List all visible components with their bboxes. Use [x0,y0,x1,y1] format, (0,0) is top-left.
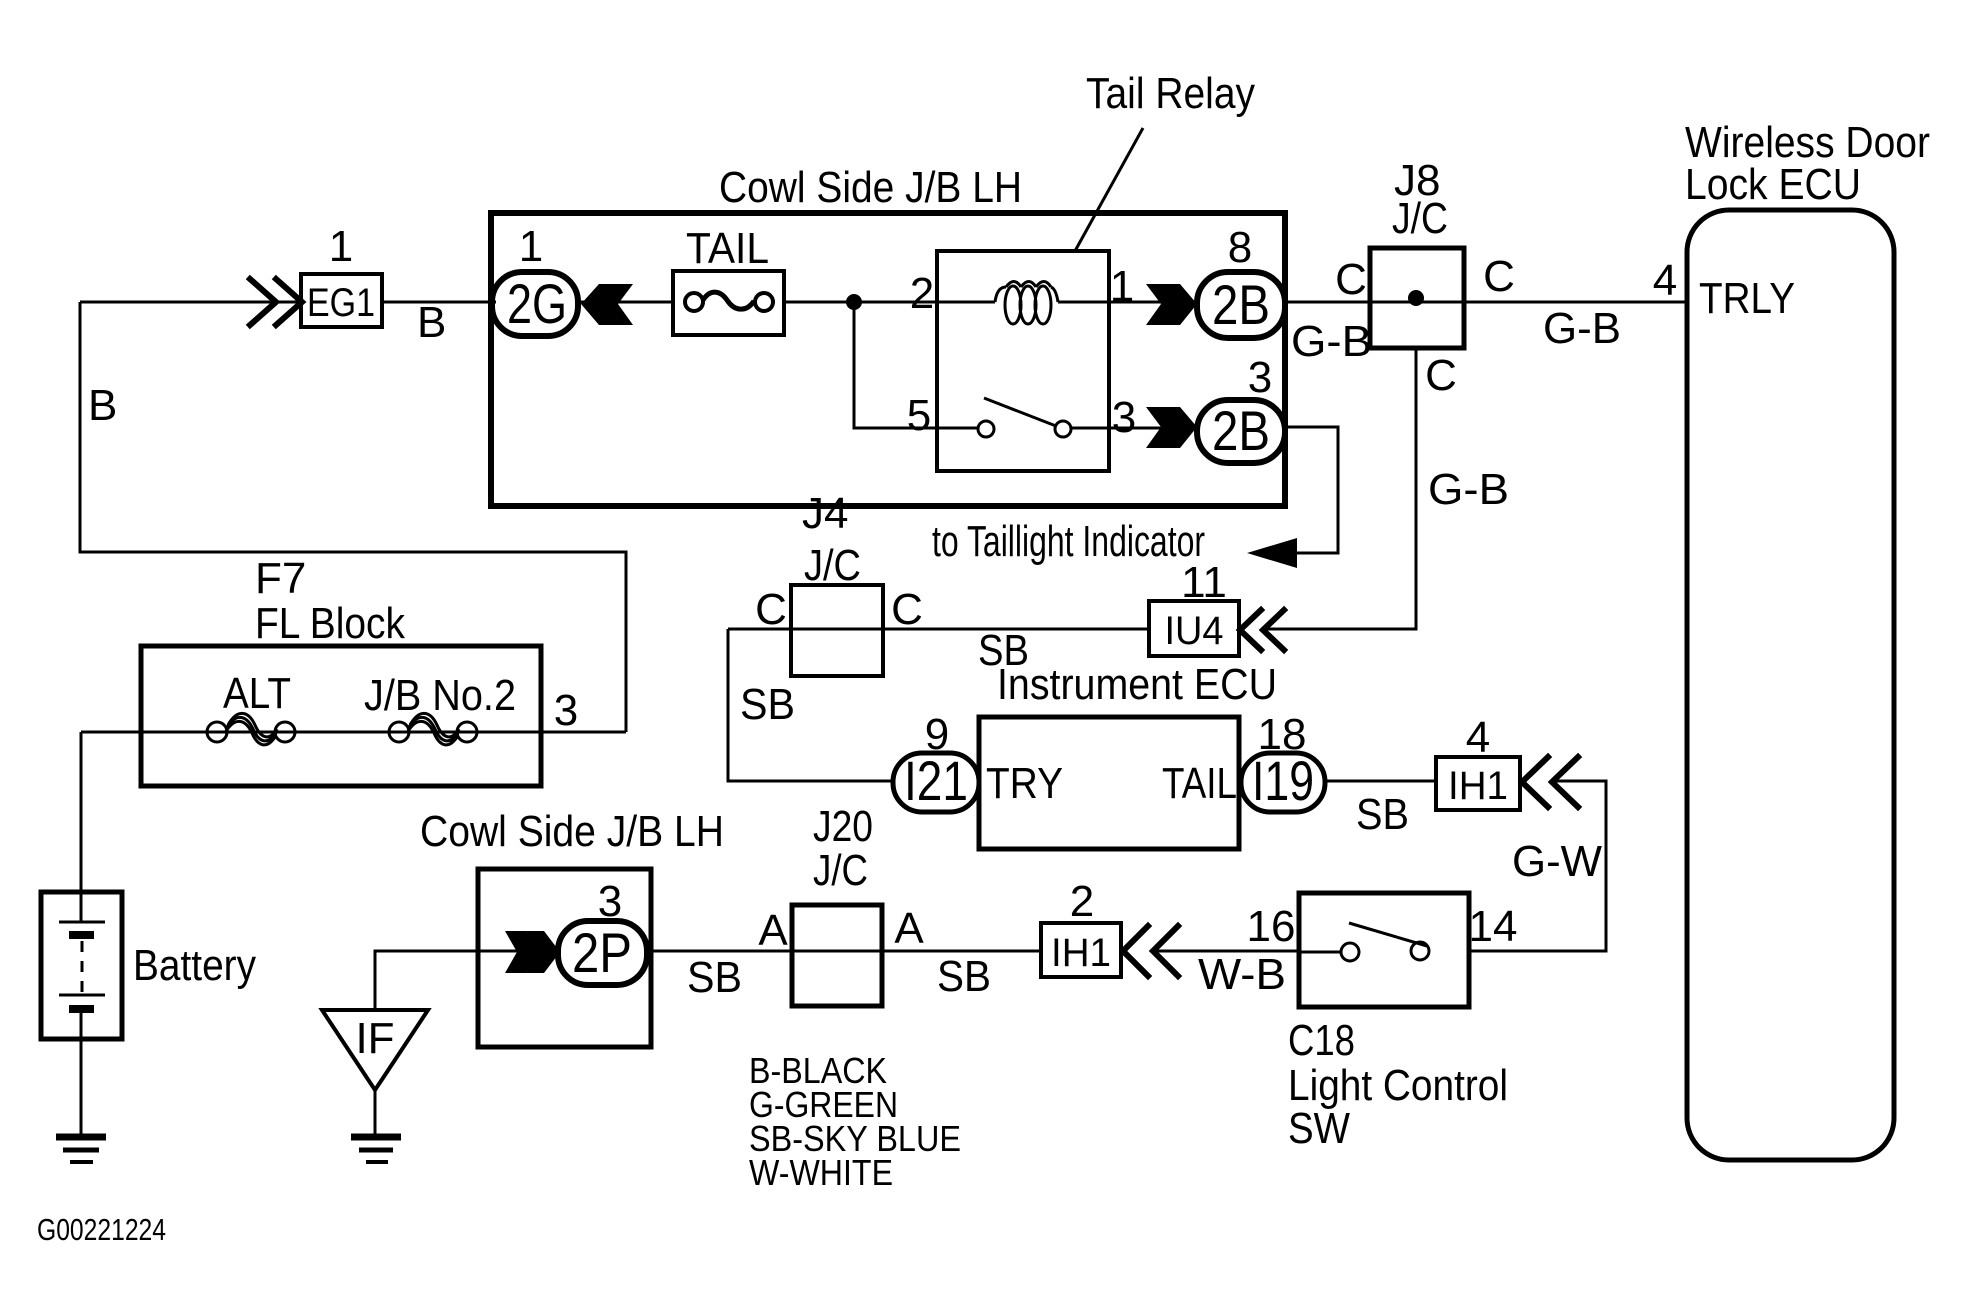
svg-text:J/B No.2: J/B No.2 [364,671,516,720]
wire junction drop to relay switch [854,302,978,428]
svg-text:IF: IF [355,1014,394,1063]
svg-text:Cowl Side J/B LH: Cowl Side J/B LH [420,807,724,856]
wire fuse row [81,731,626,734]
svg-text:F7: F7 [255,554,306,603]
connector I21 oval [893,749,979,812]
svg-text:B: B [88,381,117,430]
svg-text:IU4: IU4 [1165,609,1224,653]
svg-text:3: 3 [1112,393,1136,442]
svg-text:18: 18 [1258,710,1307,759]
svg-text:G-B: G-B [1291,317,1372,366]
battery [41,892,122,1039]
svg-text:Instrument ECU: Instrument ECU [997,660,1277,709]
svg-text:J4: J4 [802,489,848,538]
svg-text:9: 9 [925,710,949,759]
arrow to taillight indicator [1247,538,1297,568]
wire 2B upper to J8 [1285,301,1370,304]
junction connector J4 label [802,489,861,590]
svg-text:4: 4 [1466,713,1490,762]
svg-text:SB: SB [937,952,991,1001]
svg-text:5: 5 [907,391,931,440]
svg-text:J/C: J/C [813,846,868,895]
svg-text:IH1: IH1 [1448,764,1508,808]
ground symbol (battery) [56,1137,106,1162]
svg-text:A: A [894,904,924,953]
junction block Cowl Side J/B LH lower box [478,869,651,1047]
svg-text:C: C [1335,255,1367,304]
connector chevrons at IH1 upper [1522,757,1578,807]
svg-text:3: 3 [1248,353,1272,402]
connector chevrons at IH1 lower [1123,926,1178,976]
wire IH1 lower to 2P (SB) [647,950,1041,953]
wire J8 to ECU [1464,301,1687,304]
svg-text:to Taillight Indicator: to Taillight Indicator [932,517,1205,566]
legend wire colors [749,1050,961,1193]
svg-text:IH1: IH1 [1051,931,1111,975]
svg-text:TRY: TRY [986,759,1063,808]
wire IF to 2P [375,951,558,1012]
svg-text:2B: 2B [1212,273,1270,336]
fusible link J/B No.2 [389,713,477,745]
connector chevrons at IU4 [1240,610,1284,650]
svg-text:2: 2 [1070,877,1094,926]
ECU Instrument box [979,717,1239,849]
svg-text:Lock ECU: Lock ECU [1685,160,1861,209]
svg-text:C: C [891,585,923,634]
svg-text:SW: SW [1288,1104,1350,1153]
svg-text:B: B [417,298,446,347]
svg-text:FL Block: FL Block [255,599,406,648]
junction connector J20 label [813,802,873,895]
svg-text:SB: SB [687,953,742,1002]
svg-text:2P: 2P [572,921,632,984]
svg-text:W-B: W-B [1198,950,1286,999]
svg-text:C18: C18 [1288,1016,1355,1065]
junction connector J20 box [792,905,882,1006]
svg-text:C: C [1483,252,1515,301]
svg-text:ALT: ALT [223,669,291,718]
svg-text:2: 2 [910,269,934,318]
svg-text:2B: 2B [1212,399,1270,462]
svg-text:Cowl Side J/B LH: Cowl Side J/B LH [719,163,1022,212]
svg-text:SB: SB [740,680,795,729]
label C18 Light Control SW [1288,1016,1508,1153]
svg-text:J/C: J/C [1392,194,1448,243]
relay box (Tail Relay) [937,251,1109,471]
fusible link block box [141,646,541,786]
fusible link block F7 FL Block label [255,554,406,648]
svg-text:W-WHITE: W-WHITE [749,1152,893,1193]
ECU Wireless Door Lock box [1687,210,1894,1160]
male connector arrow (left-pointing) at 2G [581,284,633,325]
svg-text:11: 11 [1181,558,1227,607]
connector 2G oval [492,272,578,336]
svg-text:16: 16 [1247,902,1296,951]
wire SB vertical (J4 down to I21) [728,629,893,781]
connector IU4 [1149,601,1239,656]
wire battery drop [80,732,83,892]
wire 2B lower to taillight indicator [1285,427,1338,553]
wire relay to 2B upper [1109,301,1197,304]
svg-text:Battery: Battery [133,941,256,990]
connector EG1 [301,274,382,327]
relay switch contacts [978,398,1197,437]
junction block Cowl Side J/B LH box [491,213,1285,506]
connector chevrons into EG1 [250,279,302,325]
fusible link ALT [207,713,295,745]
svg-text:G-B: G-B [1543,304,1621,353]
node junction dot J8 [1408,290,1424,306]
svg-text:3: 3 [598,877,622,926]
label Wireless Door Lock ECU [1685,118,1930,209]
ground symbol (IF) [351,1090,401,1162]
wire main feed to EG1 [80,301,301,304]
wire battery to ground [80,1039,83,1137]
junction connector J4 box [791,585,883,676]
junction connector J8 J/C label [1392,156,1448,243]
svg-text:2G: 2G [507,272,567,335]
switch C18 Light Control box [1299,893,1469,1007]
wire IH1 to light control switch (G-W) [1469,781,1606,951]
svg-text:TAIL: TAIL [686,224,769,273]
connector 2B upper oval [1197,272,1285,338]
svg-text:8: 8 [1228,223,1252,272]
svg-text:C: C [755,585,787,634]
svg-text:3: 3 [554,686,578,735]
connector I19 oval [1241,749,1325,812]
svg-text:A: A [758,906,788,955]
wire EG1 to 2G [382,301,496,304]
connector IH1 (upper) [1436,757,1520,810]
svg-text:Tail Relay: Tail Relay [1086,69,1255,118]
junction connector J8 box [1370,248,1464,348]
leader line Tail Relay [1075,128,1143,251]
double male connector arrows at 2P [505,931,560,973]
svg-text:G00221224: G00221224 [37,1212,166,1247]
svg-text:TAIL: TAIL [1162,759,1237,808]
switch contacts [1299,923,1429,961]
fuse TAIL [673,271,784,335]
svg-text:G-W: G-W [1512,837,1602,886]
connector 2P oval [558,921,647,985]
connector 2B lower oval [1197,399,1285,463]
wire switch to IH1 lower (W-B) [1153,950,1299,953]
svg-text:4: 4 [1653,256,1677,305]
wire J8 down to IU4 (G-B) [1266,348,1416,629]
svg-text:J20: J20 [813,802,873,851]
ground IF triangle [322,1010,428,1090]
svg-text:1: 1 [519,222,543,271]
node junction dot [846,294,862,310]
svg-text:Light Control: Light Control [1288,1061,1508,1110]
wire battery feed B (left loop) [80,302,626,732]
wire fuse to relay [784,301,937,304]
svg-text:SB: SB [1356,790,1409,839]
svg-text:EG1: EG1 [307,281,375,325]
male connector arrow (right-pointing) at 2B lower [1146,407,1197,448]
svg-text:G-B: G-B [1428,465,1509,514]
svg-text:J/C: J/C [804,541,861,590]
wire through J8 [1370,301,1464,304]
connector IH1 (lower) [1041,923,1121,977]
wire through J4 to IU4 [728,628,1149,631]
svg-text:TRLY: TRLY [1699,274,1795,323]
wire I19 to IH1 [1325,780,1436,783]
relay coil [937,282,1109,325]
svg-text:1: 1 [329,222,353,271]
svg-text:1: 1 [1110,262,1134,311]
svg-text:C: C [1425,351,1457,400]
svg-text:14: 14 [1469,902,1518,951]
wire 2G to TAIL fuse [578,301,673,304]
male connector arrow (right-pointing) at 2B upper [1146,284,1197,325]
